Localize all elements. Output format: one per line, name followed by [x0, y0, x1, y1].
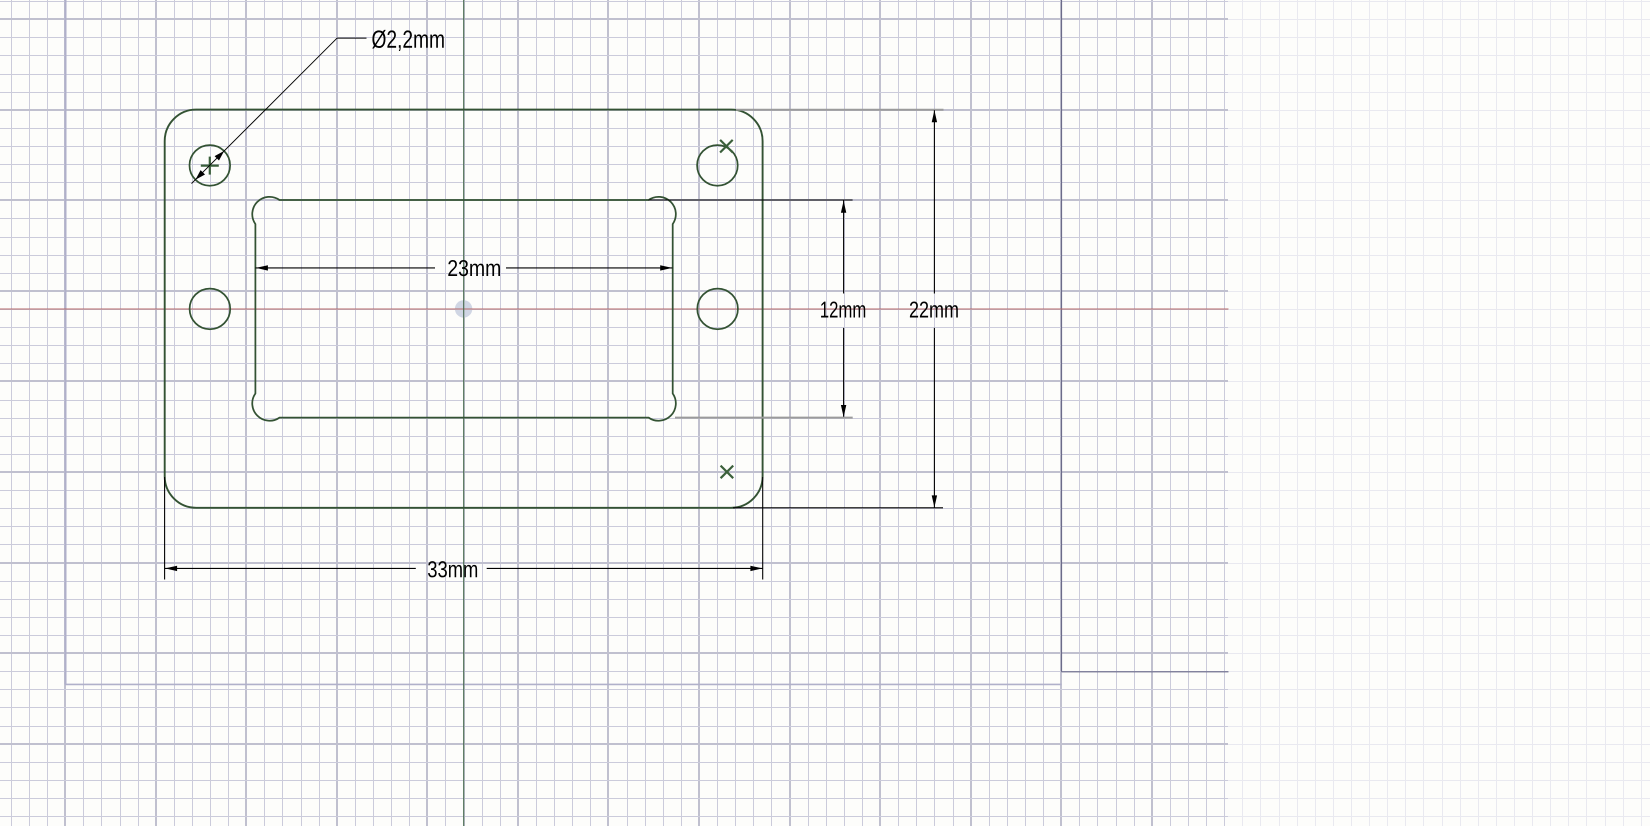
sheet boundary vertical left [65, 0, 67, 684]
hole mid-right [697, 289, 738, 330]
dimension 22mm [736, 109, 944, 111]
hole top-right [697, 145, 738, 186]
plane edge vertical [1061, 0, 1063, 672]
plate outline [165, 110, 763, 508]
hole mid-left [190, 289, 231, 330]
dimension 33mm [165, 477, 763, 580]
sheet boundary horizontal bottom [65, 683, 1062, 685]
construction point cross top-right [720, 140, 733, 153]
center cross of top-left hole [201, 157, 219, 175]
diameter leader Ø2,2mm [192, 38, 367, 184]
plane edge horizontal [1062, 671, 1229, 673]
Y axis (green construction axis) [463, 0, 465, 826]
construction point cross bottom-right [721, 466, 734, 479]
origin point [455, 300, 472, 317]
dimension 12mm [649, 200, 853, 417]
dimension 23mm [255, 267, 672, 269]
slot with dogbone corners [252, 197, 676, 421]
X axis (red construction axis) [0, 308, 1229, 310]
hole top-left [190, 145, 231, 186]
